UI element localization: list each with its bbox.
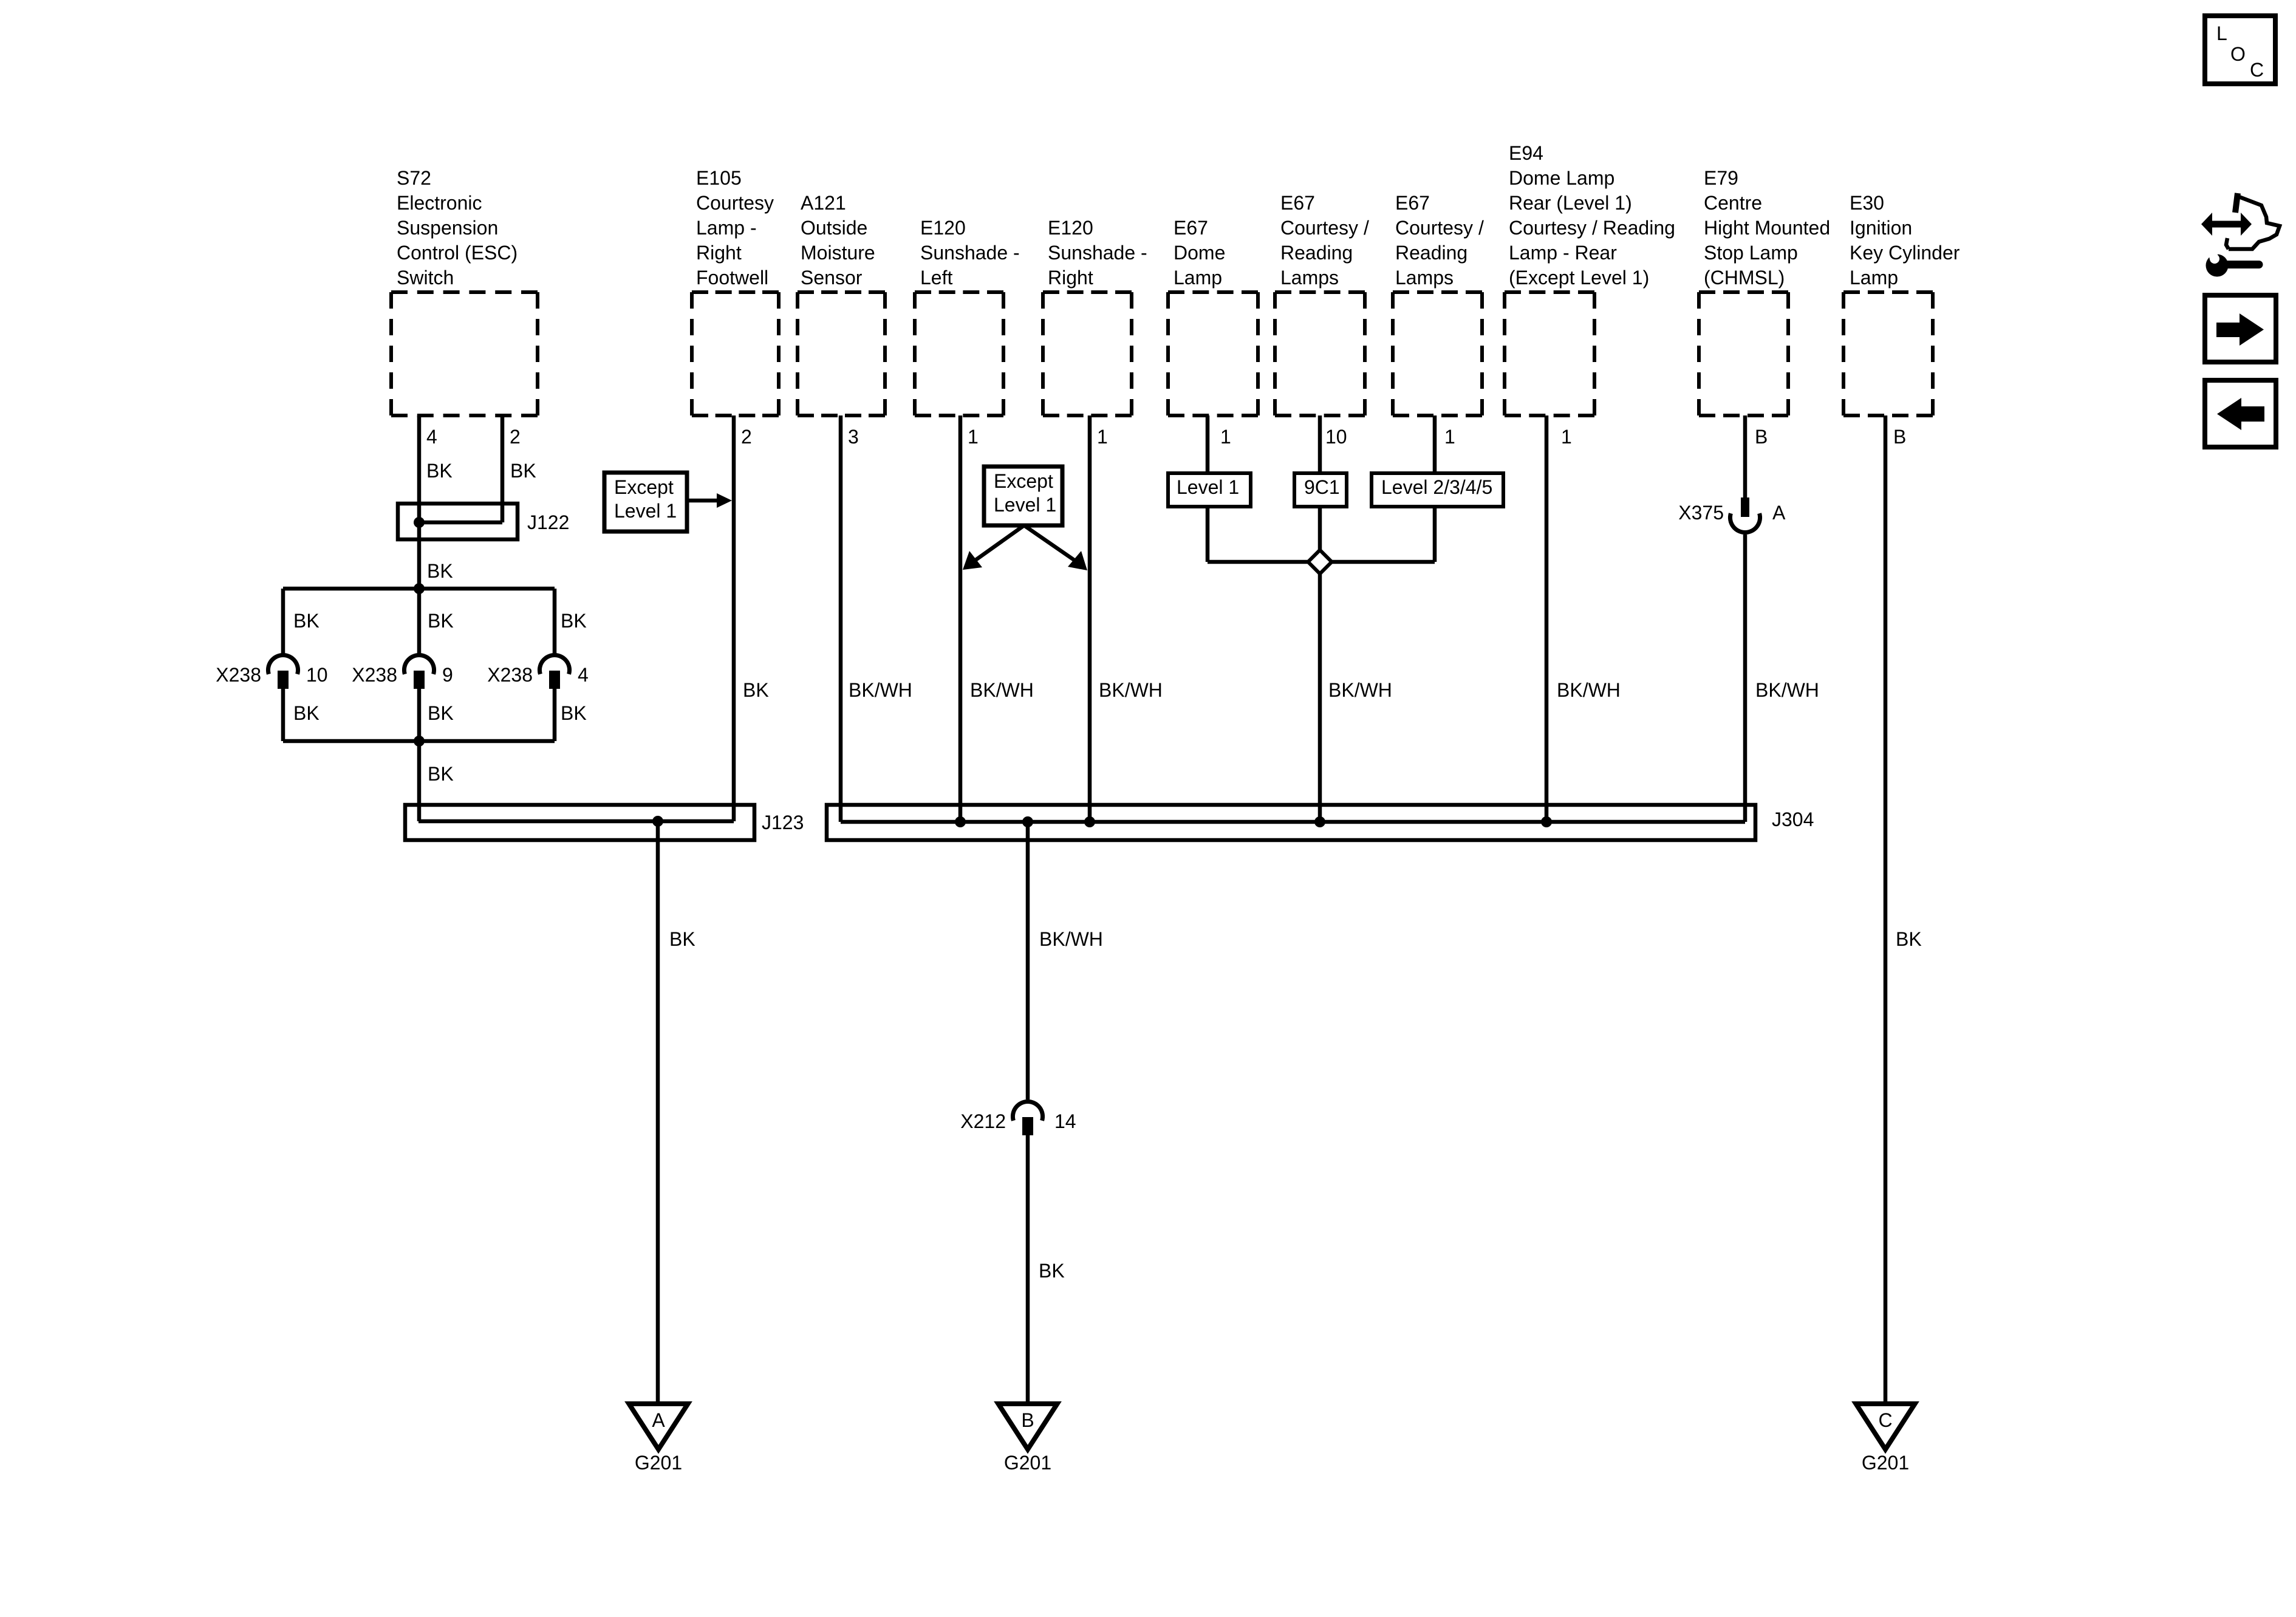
component E120 Sunshade - Right box bbox=[1043, 292, 1132, 415]
wire loop left branch upper bbox=[281, 589, 285, 656]
svg-text:S72: S72 bbox=[397, 167, 431, 189]
wire E67 Courtesy pin 10 to splice J304 bbox=[1318, 415, 1322, 822]
svg-text:(CHMSL): (CHMSL) bbox=[1704, 267, 1785, 289]
component A121 Outside Moisture Sensor box bbox=[798, 292, 885, 415]
svg-text:Lamp: Lamp bbox=[1174, 267, 1222, 289]
component E120 Sunshade - Left label bbox=[920, 217, 1020, 289]
wire E120 right pin 1 to splice J304 bbox=[1088, 415, 1092, 822]
junction dot J304 at E120 left wire bbox=[955, 816, 966, 827]
pin 1 of E120 right bbox=[1097, 426, 1108, 448]
pin B of E30 bbox=[1893, 426, 1906, 448]
pin 1 of E67 Courtesy right bbox=[1444, 426, 1455, 448]
svg-text:BK: BK bbox=[1896, 928, 1922, 950]
pin 1 of E67 Dome Lamp bbox=[1220, 426, 1231, 448]
svg-text:BK/WH: BK/WH bbox=[849, 679, 912, 701]
wire J123 to ground A bbox=[656, 821, 660, 1403]
svg-text:Footwell: Footwell bbox=[696, 267, 768, 289]
svg-text:Rear (Level 1): Rear (Level 1) bbox=[1509, 192, 1632, 214]
svg-text:Stop Lamp: Stop Lamp bbox=[1704, 242, 1798, 264]
svg-text:Control (ESC): Control (ESC) bbox=[397, 242, 518, 264]
wire label BK/WH (E79 wire) bbox=[1755, 679, 1819, 701]
svg-text:Level 1: Level 1 bbox=[614, 500, 677, 522]
pin 1 of E94 bbox=[1561, 426, 1572, 448]
svg-text:Suspension: Suspension bbox=[397, 217, 498, 239]
component S72 Electronic Suspension Control (ESC) Switch box bbox=[391, 292, 538, 415]
svg-text:Reading: Reading bbox=[1395, 242, 1467, 264]
component E67 Courtesy / Reading Lamps (left) box bbox=[1275, 292, 1365, 415]
svg-text:G201: G201 bbox=[1862, 1452, 1909, 1474]
ground G201 C bbox=[1856, 1404, 1915, 1474]
wire loop right branch upper bbox=[553, 589, 557, 656]
svg-text:C: C bbox=[2250, 59, 2264, 81]
wire loop bottom edge bbox=[283, 739, 555, 744]
icon back arrow box bbox=[2205, 380, 2276, 447]
wire label BK/WH (E120 left wire) bbox=[970, 679, 1034, 701]
svg-text:Sunshade -: Sunshade - bbox=[1048, 242, 1147, 264]
component E120 Sunshade - Left box bbox=[915, 292, 1003, 415]
svg-text:9C1: 9C1 bbox=[1304, 476, 1340, 498]
inline connector X238 pin 10 (socket over pin) bbox=[216, 655, 327, 689]
svg-text:E67: E67 bbox=[1280, 192, 1315, 214]
junction dot on J122 bar bbox=[414, 517, 425, 528]
svg-text:G201: G201 bbox=[1004, 1452, 1051, 1474]
svg-text:4: 4 bbox=[578, 664, 589, 686]
svg-text:J122: J122 bbox=[527, 511, 569, 533]
svg-text:Electronic: Electronic bbox=[397, 192, 482, 214]
svg-text:O: O bbox=[2230, 43, 2246, 65]
svg-text:9: 9 bbox=[442, 664, 453, 686]
svg-text:Sensor: Sensor bbox=[801, 267, 863, 289]
svg-text:BK: BK bbox=[1039, 1260, 1065, 1282]
svg-text:Except: Except bbox=[994, 470, 1053, 492]
component E67 Courtesy / Reading Lamps (left) label bbox=[1280, 192, 1369, 289]
tag Level 2/3/4/5 bbox=[1372, 473, 1503, 507]
component E67 Courtesy / Reading Lamps (right) box bbox=[1393, 292, 1482, 415]
svg-text:2: 2 bbox=[510, 426, 521, 448]
svg-text:E94: E94 bbox=[1509, 142, 1543, 164]
tag Level 1 bbox=[1168, 473, 1251, 507]
wire E67 Dome Lamp pin 1 down bbox=[1206, 415, 1210, 562]
component E67 Courtesy / Reading Lamps (right) label bbox=[1395, 192, 1484, 289]
pin B of E79 bbox=[1755, 426, 1768, 448]
svg-text:A: A bbox=[1772, 502, 1786, 524]
icon LOC box bbox=[2205, 16, 2275, 84]
component E67 Dome Lamp box bbox=[1168, 292, 1258, 415]
svg-text:Level 2/3/4/5: Level 2/3/4/5 bbox=[1381, 476, 1492, 498]
svg-text:BK: BK bbox=[293, 702, 319, 724]
wire S72 pin 4 to splice J122 bbox=[417, 415, 422, 522]
wire label BK (loop centre upper) bbox=[428, 610, 454, 632]
svg-text:Courtesy /: Courtesy / bbox=[1395, 217, 1484, 239]
svg-text:Level 1: Level 1 bbox=[994, 494, 1056, 516]
svg-text:C: C bbox=[1878, 1409, 1892, 1431]
pin 1 of E120 left bbox=[968, 426, 979, 448]
inline connector X212 pin 14 (socket over pin) bbox=[960, 1101, 1076, 1135]
svg-text:BK: BK bbox=[561, 610, 587, 632]
pin 2 of S72 bbox=[510, 426, 521, 448]
wire label BK (S72 pin 2 wire) bbox=[510, 460, 536, 482]
diamond splice node bbox=[1308, 550, 1332, 574]
junction dot loop top node bbox=[414, 583, 425, 594]
inline connector X238 pin 9 (socket over pin) bbox=[352, 655, 453, 689]
inline connector X375 pin A (pin over socket) bbox=[1678, 497, 1786, 533]
wire loop centre branch lower bbox=[417, 689, 422, 741]
component S72 Electronic Suspension Control (ESC) Switch label bbox=[397, 167, 518, 289]
component E94 Dome Lamp Rear box bbox=[1505, 292, 1594, 415]
svg-text:BK: BK bbox=[561, 702, 587, 724]
flag Except Level 1 (E120 wires) bbox=[963, 467, 1087, 570]
svg-text:1: 1 bbox=[968, 426, 979, 448]
wire E79 pin B to connector X375 bbox=[1743, 415, 1748, 497]
svg-text:E120: E120 bbox=[920, 217, 966, 239]
svg-text:X212: X212 bbox=[960, 1110, 1006, 1132]
wire label BK (J122-loop wire) bbox=[427, 560, 453, 582]
component E67 Dome Lamp label bbox=[1174, 217, 1225, 289]
svg-text:X238: X238 bbox=[352, 664, 397, 686]
svg-text:Lamp: Lamp bbox=[1850, 267, 1898, 289]
svg-text:Lamp - Rear: Lamp - Rear bbox=[1509, 242, 1617, 264]
splice J123 bbox=[405, 805, 804, 840]
svg-text:(Except Level 1): (Except Level 1) bbox=[1509, 267, 1649, 289]
svg-text:BK: BK bbox=[428, 610, 454, 632]
svg-text:1: 1 bbox=[1097, 426, 1108, 448]
wire label BK (X212-ground wire) bbox=[1039, 1260, 1065, 1282]
svg-text:3: 3 bbox=[848, 426, 859, 448]
svg-text:X238: X238 bbox=[487, 664, 533, 686]
pin 3 of A121 bbox=[848, 426, 859, 448]
junction dot J304 at 9C1 wire bbox=[1314, 816, 1325, 827]
component A121 Outside Moisture Sensor label bbox=[801, 192, 875, 289]
svg-text:BK: BK bbox=[510, 460, 536, 482]
svg-text:BK/WH: BK/WH bbox=[970, 679, 1034, 701]
flag Except Level 1 (E105 wire) bbox=[604, 473, 732, 532]
splice J304 bbox=[827, 805, 1814, 840]
component E30 Ignition Key Cylinder Lamp box bbox=[1843, 292, 1933, 415]
svg-text:BK: BK bbox=[426, 460, 453, 482]
svg-text:E30: E30 bbox=[1850, 192, 1884, 214]
component E105 Courtesy Lamp - Right Footwell box bbox=[692, 292, 779, 415]
component E79 Centre Hight Mounted Stop Lamp (CHMSL) label bbox=[1704, 167, 1830, 289]
wire E30 pin B to ground C bbox=[1884, 415, 1888, 1403]
svg-text:X238: X238 bbox=[216, 664, 261, 686]
svg-text:Dome: Dome bbox=[1174, 242, 1225, 264]
svg-text:Dome Lamp: Dome Lamp bbox=[1509, 167, 1614, 189]
svg-text:E67: E67 bbox=[1174, 217, 1208, 239]
wire label BK/WH (J304-X212 wire) bbox=[1039, 928, 1103, 950]
wire label BK (E30 wire) bbox=[1896, 928, 1922, 950]
wire label BK/WH (E94 wire) bbox=[1557, 679, 1621, 701]
svg-text:Hight Mounted: Hight Mounted bbox=[1704, 217, 1830, 239]
wire label BK (loop left lower) bbox=[293, 702, 319, 724]
splice J122 bbox=[398, 504, 569, 539]
junction dot J304 at E120 right wire bbox=[1084, 816, 1095, 827]
svg-text:BK: BK bbox=[743, 679, 769, 701]
wire label BK/WH (9C1 wire) bbox=[1328, 679, 1392, 701]
inline connector X238 pin 4 (socket over pin) bbox=[487, 655, 589, 689]
svg-text:BK/WH: BK/WH bbox=[1039, 928, 1103, 950]
svg-text:BK/WH: BK/WH bbox=[1557, 679, 1621, 701]
wire loop to splice J123 bbox=[417, 741, 422, 821]
wire label BK (loop centre lower) bbox=[428, 702, 454, 724]
svg-text:BK: BK bbox=[669, 928, 695, 950]
svg-text:E120: E120 bbox=[1048, 217, 1093, 239]
component E120 Sunshade - Right label bbox=[1048, 217, 1147, 289]
wire J122 to X238 loop top node bbox=[417, 522, 422, 589]
junction dot J304 at ground branch bbox=[1022, 816, 1033, 827]
wire E67 Courtesy pin 1 down bbox=[1433, 415, 1437, 562]
svg-text:1: 1 bbox=[1561, 426, 1572, 448]
svg-text:B: B bbox=[1893, 426, 1906, 448]
wire label BK (loop-J123 wire) bbox=[428, 763, 454, 785]
ground G201 B bbox=[999, 1404, 1057, 1474]
svg-text:E67: E67 bbox=[1395, 192, 1430, 214]
svg-text:Lamp -: Lamp - bbox=[696, 217, 757, 239]
svg-text:Reading: Reading bbox=[1280, 242, 1353, 264]
svg-text:1: 1 bbox=[1220, 426, 1231, 448]
svg-text:14: 14 bbox=[1054, 1110, 1076, 1132]
component E30 Ignition Key Cylinder Lamp label bbox=[1850, 192, 1960, 289]
svg-text:E105: E105 bbox=[696, 167, 742, 189]
wire label BK (J123-ground wire) bbox=[669, 928, 695, 950]
svg-text:Moisture: Moisture bbox=[801, 242, 875, 264]
svg-text:A121: A121 bbox=[801, 192, 846, 214]
wire label BK/WH (E120 right wire) bbox=[1099, 679, 1163, 701]
wire loop right branch lower bbox=[553, 689, 557, 741]
svg-text:BK: BK bbox=[293, 610, 319, 632]
wire A121 pin 3 to splice J304 bbox=[839, 415, 843, 822]
wire J304 to connector X212 bbox=[1026, 822, 1030, 1099]
wire label BK (loop right lower) bbox=[561, 702, 587, 724]
tag 9C1 bbox=[1294, 473, 1347, 507]
pin 10 of E67 Courtesy left bbox=[1325, 426, 1347, 448]
icon forward arrow box bbox=[2205, 295, 2276, 362]
wire S72 pin 2 to splice J122 bbox=[501, 415, 505, 522]
svg-text:Outside: Outside bbox=[801, 217, 867, 239]
svg-text:L: L bbox=[2216, 22, 2227, 44]
svg-text:A: A bbox=[652, 1409, 665, 1431]
svg-text:Switch: Switch bbox=[397, 267, 454, 289]
wire X212 to ground B bbox=[1026, 1135, 1030, 1403]
component E79 Centre Hight Mounted Stop Lamp (CHMSL) box bbox=[1699, 292, 1788, 415]
svg-text:Right: Right bbox=[696, 242, 742, 264]
svg-text:BK: BK bbox=[428, 763, 454, 785]
wire label BK (S72 pin 4 wire) bbox=[426, 460, 453, 482]
svg-text:2: 2 bbox=[741, 426, 752, 448]
ground G201 A bbox=[629, 1404, 688, 1474]
wire E120 left pin 1 to splice J304 bbox=[958, 415, 963, 822]
wire E94 pin 1 to splice J304 bbox=[1545, 415, 1549, 822]
junction dot on J123 bar bbox=[652, 816, 663, 827]
svg-text:Level 1: Level 1 bbox=[1177, 476, 1239, 498]
svg-text:Except: Except bbox=[614, 476, 674, 498]
wire label BK (loop left upper) bbox=[293, 610, 319, 632]
wire dome lamp to diamond junction bbox=[1208, 560, 1320, 564]
svg-text:Key Cylinder: Key Cylinder bbox=[1850, 242, 1960, 264]
wire E105 pin 2 to splice J123 bbox=[732, 415, 736, 821]
svg-text:Sunshade -: Sunshade - bbox=[920, 242, 1020, 264]
svg-text:Lamps: Lamps bbox=[1395, 267, 1454, 289]
svg-text:Courtesy / Reading: Courtesy / Reading bbox=[1509, 217, 1675, 239]
svg-text:BK/WH: BK/WH bbox=[1328, 679, 1392, 701]
svg-text:Courtesy /: Courtesy / bbox=[1280, 217, 1369, 239]
component E105 Courtesy Lamp - Right Footwell label bbox=[696, 167, 774, 289]
pin 2 of E105 bbox=[741, 426, 752, 448]
wire label BK/WH (A121 wire) bbox=[849, 679, 912, 701]
svg-text:Ignition: Ignition bbox=[1850, 217, 1912, 239]
wire loop left branch lower bbox=[281, 689, 285, 741]
svg-text:Centre: Centre bbox=[1704, 192, 1762, 214]
svg-text:Left: Left bbox=[920, 267, 952, 289]
wire loop top edge bbox=[283, 587, 555, 591]
pin 4 of S72 bbox=[426, 426, 437, 448]
svg-text:J304: J304 bbox=[1772, 808, 1814, 830]
svg-text:Lamps: Lamps bbox=[1280, 267, 1339, 289]
svg-text:B: B bbox=[1021, 1409, 1034, 1431]
svg-text:4: 4 bbox=[426, 426, 437, 448]
svg-text:Courtesy: Courtesy bbox=[696, 192, 774, 214]
svg-text:BK: BK bbox=[427, 560, 453, 582]
wire loop centre branch upper bbox=[417, 589, 422, 656]
wire label BK (loop right upper) bbox=[561, 610, 587, 632]
wire X375 to splice J304 bbox=[1743, 535, 1748, 822]
svg-text:BK: BK bbox=[428, 702, 454, 724]
junction dot loop bottom node bbox=[414, 736, 425, 747]
svg-text:BK/WH: BK/WH bbox=[1099, 679, 1163, 701]
component E94 Dome Lamp Rear label bbox=[1509, 142, 1675, 289]
svg-text:BK/WH: BK/WH bbox=[1755, 679, 1819, 701]
svg-text:J123: J123 bbox=[762, 812, 804, 833]
svg-text:B: B bbox=[1755, 426, 1768, 448]
icon vehicle with double arrow and wrench bbox=[2201, 193, 2280, 277]
svg-text:G201: G201 bbox=[635, 1452, 682, 1474]
svg-text:X375: X375 bbox=[1678, 502, 1724, 524]
svg-text:E79: E79 bbox=[1704, 167, 1738, 189]
junction dot J304 at E94 wire bbox=[1541, 816, 1552, 827]
svg-text:Right: Right bbox=[1048, 267, 1093, 289]
svg-text:10: 10 bbox=[1325, 426, 1347, 448]
svg-text:10: 10 bbox=[306, 664, 328, 686]
wire label BK (E105 wire) bbox=[743, 679, 769, 701]
svg-text:1: 1 bbox=[1444, 426, 1455, 448]
wire courtesy lamps to diamond junction bbox=[1320, 560, 1435, 564]
